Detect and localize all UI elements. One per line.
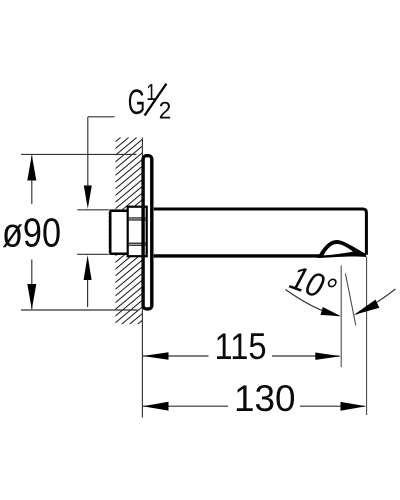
dim: G1/2 arrow up to thread (84, 255, 92, 280)
dim: phi90 top extension line (21, 153, 137, 155)
thread extension line top (77, 209, 110, 211)
svg-text:2: 2 (159, 98, 172, 125)
svg-text:ø90: ø90 (2, 210, 61, 256)
angle ref line vertical (line1) (340, 265, 342, 367)
wall surface line / left extension line (141, 138, 143, 418)
angle slanted line (line2) (345, 273, 355, 325)
svg-text:G: G (128, 83, 146, 122)
dim: G1/2 leader horizontal (88, 116, 115, 118)
dim: phi90 dimension line upper segment (31, 156, 33, 205)
dim: G1/2 arrow down to thread (84, 186, 92, 209)
angle arc left (286, 290, 339, 316)
svg-text:130: 130 (234, 378, 296, 419)
backnut (128, 207, 147, 257)
flange (escutcheon) (143, 156, 152, 309)
dim 130 arrow left (143, 402, 169, 411)
angle arc right (356, 289, 396, 314)
dim: G1/2 lower arrow tail (87, 280, 89, 307)
dim 130 line right segment (300, 405, 365, 407)
threaded nipple G1/2 (109, 209, 128, 255)
spout tube top edge and right end (154, 209, 367, 255)
text G1/2 (128, 79, 172, 125)
svg-text:115: 115 (215, 326, 267, 367)
angle arc right arrowhead (354, 300, 380, 315)
dim 130 line left segment (142, 405, 228, 407)
svg-text:10°: 10° (283, 260, 343, 309)
dim 115 line left segment (142, 355, 208, 357)
dim 115 arrow right (315, 353, 341, 360)
dim: phi90 arrow down (27, 284, 36, 310)
spout tube bottom edge (154, 254, 320, 257)
dim 130 arrow right (341, 402, 367, 411)
dim: phi90 dimension line lower segment (31, 260, 33, 310)
dim: phi90 arrow up (27, 155, 36, 181)
right extension line (line3) (366, 257, 368, 416)
dim 115 arrow left (143, 352, 169, 359)
dim: phi90 bottom extension line (21, 309, 138, 311)
spout outlet lip (beak) filled wedge (317, 240, 366, 258)
dim: G1/2 leader vertical (87, 117, 89, 188)
dim 115 line right segment (272, 355, 340, 357)
spout outlet lip white sliver (324, 244, 354, 255)
wall hatching (114, 116, 146, 344)
angle arc left arrowhead (321, 307, 342, 316)
thread extension line bottom (77, 253, 110, 255)
